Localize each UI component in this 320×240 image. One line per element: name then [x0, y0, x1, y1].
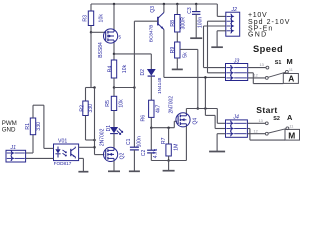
svg-text:330: 330 — [88, 104, 94, 113]
wire N1 to gate-riser jog — [86, 87, 95, 89]
svg-text:V01: V01 — [58, 139, 67, 145]
switch S1 lever — [268, 72, 286, 77]
wire J1 pin1 to R1 — [26, 152, 33, 154]
svg-text:5k: 5k — [183, 52, 189, 58]
connector J3 — [226, 64, 248, 81]
svg-text:Speed: Speed — [253, 44, 283, 54]
svg-text:Q3: Q3 — [150, 6, 156, 13]
svg-text:C2: C2 — [141, 149, 147, 156]
svg-text:R6: R6 — [140, 115, 146, 122]
ground J4 — [216, 134, 218, 152]
svg-text:S2: S2 — [273, 116, 280, 122]
ground Q4 source rail — [168, 161, 170, 171]
svg-text:C3: C3 — [187, 7, 193, 14]
svg-text:R2: R2 — [79, 105, 85, 112]
ground R9 — [176, 64, 178, 70]
box A auto speed — [283, 74, 298, 84]
switch S1 wire pin1 — [248, 67, 266, 69]
connector J1 — [6, 150, 26, 162]
svg-text:D2: D2 — [140, 69, 146, 76]
transistor Q2 2N7002 — [104, 147, 118, 161]
wire Q4 gate rail — [151, 127, 174, 129]
svg-text:C1: C1 — [126, 138, 132, 145]
box M manual start — [285, 129, 300, 140]
svg-text:4.7u: 4.7u — [153, 148, 159, 158]
svg-text:12: 12 — [254, 74, 258, 78]
svg-text:R8: R8 — [170, 20, 176, 27]
svg-text:FOD817: FOD817 — [54, 161, 72, 166]
wire staircase to J4 pin2 — [205, 114, 215, 116]
wire node to D2 — [114, 53, 151, 55]
capacitor C1 — [133, 88, 135, 148]
svg-text:Q4: Q4 — [192, 118, 198, 125]
wire J2 pin4 to ground — [217, 30, 226, 32]
wire staircase to J4 pin1 — [216, 109, 218, 124]
svg-text:300R: 300R — [180, 17, 186, 30]
ground Q2 source — [113, 161, 115, 171]
svg-text:M: M — [288, 130, 295, 140]
svg-text:1N4148: 1N4148 — [157, 77, 162, 94]
transistor Q3 BC847B — [163, 3, 166, 6]
svg-text:R1: R1 — [25, 123, 31, 130]
resistor R2 — [85, 88, 87, 102]
wire Q1 drain to node — [113, 43, 115, 54]
switch S2 wire pin1 — [247, 122, 265, 124]
svg-text:R5: R5 — [105, 100, 111, 107]
svg-text:13: 13 — [260, 63, 264, 67]
wire Q3 base — [134, 20, 158, 22]
diode D1 LED — [110, 127, 118, 133]
wire opto emitter to ground — [79, 157, 84, 159]
resistor R8 — [176, 3, 179, 6]
svg-text:4k7: 4k7 — [155, 105, 161, 113]
svg-text:M: M — [287, 57, 293, 66]
wire J3 pin2 to A box — [248, 72, 254, 74]
switch S2 wire pin3 common — [247, 133, 265, 135]
svg-text:2N7002: 2N7002 — [168, 96, 174, 114]
wire Q2 gate riser — [94, 88, 96, 155]
node Q1 gate junction — [90, 31, 93, 34]
ground J2 pin4 — [216, 31, 218, 47]
wire top +10V rail — [91, 3, 217, 5]
connector J2 — [216, 4, 218, 16]
svg-text:R4: R4 — [108, 66, 114, 73]
svg-text:10k: 10k — [122, 64, 128, 73]
svg-text:Q2: Q2 — [120, 152, 126, 159]
svg-text:D1: D1 — [106, 125, 112, 132]
wire J4 pin3 ground feeder — [217, 133, 225, 135]
ground opto emitter — [82, 158, 84, 171]
wire Q4 drain — [185, 109, 187, 114]
svg-text:2N7002: 2N7002 — [99, 128, 105, 146]
svg-text:GND: GND — [2, 126, 16, 133]
svg-text:R7: R7 — [161, 137, 167, 144]
svg-text:10k: 10k — [118, 99, 124, 108]
svg-text:10k: 10k — [99, 14, 105, 23]
wire opto collector — [79, 146, 95, 148]
resistor R5 — [113, 88, 115, 97]
resistor R6 — [149, 100, 154, 117]
svg-text:12: 12 — [254, 129, 258, 133]
svg-text:GND: GND — [248, 32, 267, 39]
transistor Q4 2N7002 — [176, 113, 190, 127]
resistor R9 trimmer — [175, 42, 180, 58]
svg-text:J1: J1 — [10, 145, 17, 151]
switch S1 wire pin3 common — [248, 77, 266, 79]
wire R1 top to opto anode — [33, 104, 44, 106]
svg-text:Start: Start — [256, 105, 277, 115]
node N1 rail — [113, 86, 116, 89]
svg-text:R9: R9 — [170, 47, 176, 54]
svg-text:1M: 1M — [174, 143, 180, 150]
ground C1 — [133, 150, 135, 171]
wire R9 wiper — [180, 48, 198, 50]
resistor R1 — [30, 118, 35, 135]
svg-text:100n: 100n — [198, 17, 204, 28]
wire Q1 source from rail — [113, 3, 116, 6]
svg-text:A: A — [288, 74, 294, 84]
ground C3 — [195, 14, 197, 38]
wire Q3 emitter to J3 pin3 — [163, 30, 165, 78]
svg-text:J3: J3 — [233, 58, 240, 64]
capacitor C2 — [150, 128, 152, 151]
svg-text:5: 5 — [119, 34, 122, 39]
svg-text:11: 11 — [289, 68, 293, 72]
switch S2 lever — [268, 129, 286, 133]
svg-text:11: 11 — [289, 124, 293, 128]
svg-text:330: 330 — [36, 122, 42, 131]
resistor R3 — [90, 4, 92, 11]
wire drain riser to J3 pin3 — [204, 77, 206, 115]
wire Q4 source rail — [151, 160, 186, 162]
wire J1 pin2 to opto cathode — [26, 157, 54, 159]
svg-text:J2: J2 — [231, 7, 238, 13]
wire Q1 gate — [91, 31, 106, 33]
resistor R7 — [168, 128, 170, 144]
svg-text:100n: 100n — [136, 136, 142, 147]
resistor R4 — [113, 54, 115, 60]
transistor Q1 BSS84 p-mosfet — [104, 29, 118, 43]
svg-text:S1: S1 — [275, 60, 282, 66]
svg-text:J4: J4 — [232, 115, 239, 121]
optocoupler V01 FOD817 — [54, 144, 79, 161]
wire J2 pin2 to J3 pin2 — [208, 20, 226, 22]
svg-text:13: 13 — [259, 119, 263, 123]
wire Q3 base vertical — [133, 21, 135, 87]
capacitor C3 — [195, 3, 198, 6]
diode D2 1N4148 — [147, 69, 156, 76]
connector J4 — [226, 120, 248, 137]
svg-text:R3: R3 — [82, 15, 88, 22]
svg-text:A: A — [287, 113, 293, 122]
wire J4 pin2 to M box — [247, 128, 250, 130]
wire J2 pin3 to J3 pin1 — [204, 25, 226, 27]
svg-text:BSS84: BSS84 — [98, 42, 104, 58]
svg-text:BC847B: BC847B — [148, 25, 153, 42]
